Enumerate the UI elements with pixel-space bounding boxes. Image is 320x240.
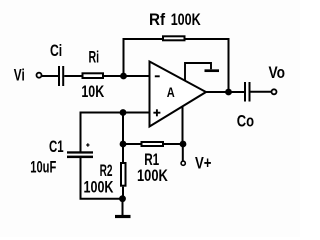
- svg-text:Ci: Ci: [50, 42, 62, 60]
- op-amp U1: [150, 62, 207, 127]
- node ground junction: [119, 195, 126, 202]
- wire offset/case pin: [185, 63, 211, 81]
- wire Ci to Ri: [64, 75, 82, 77]
- resistor Ri: [83, 73, 104, 78]
- svg-text:Ri: Ri: [89, 48, 100, 66]
- node output junction: [225, 89, 232, 96]
- wire Vi to Ci: [42, 75, 58, 77]
- ground case bar: [205, 69, 220, 72]
- capacitor Co: [245, 82, 250, 102]
- wire to V+ terminal: [182, 144, 184, 161]
- node Vo output terminal: [272, 89, 277, 94]
- node V+ junction: [180, 141, 187, 148]
- node non-inverting junction: [120, 109, 127, 116]
- wire R1 node to R2: [122, 144, 124, 163]
- svg-text:Vi: Vi: [14, 67, 25, 85]
- wire Co to Vo: [251, 91, 272, 93]
- wire ground stub: [122, 199, 124, 216]
- pin minus: [155, 75, 160, 77]
- svg-text:100K: 100K: [137, 167, 168, 185]
- svg-text:C1: C1: [49, 138, 64, 156]
- resistor Rf: [163, 36, 185, 40]
- wire R1: [123, 143, 183, 145]
- polarity plus mark: [86, 143, 89, 146]
- resistor R2: [121, 163, 126, 186]
- svg-text:Vo: Vo: [269, 64, 286, 82]
- resistor R1: [142, 142, 164, 146]
- svg-text:10uF: 10uF: [30, 159, 56, 177]
- svg-text:R2: R2: [100, 162, 113, 180]
- wire output: [205, 91, 244, 93]
- wire junction down to R1 node: [122, 113, 124, 145]
- pin plus: [153, 109, 160, 116]
- capacitor C1 electrolytic: [67, 151, 93, 158]
- svg-text:100K: 100K: [84, 179, 114, 197]
- wire C1 to ground node: [81, 158, 123, 199]
- wire R2 to ground node: [122, 187, 124, 199]
- capacitor Ci: [59, 66, 63, 86]
- svg-text:100K: 100K: [171, 11, 201, 29]
- wire C1 to non-inverting input: [81, 113, 150, 152]
- node R1 R2 junction: [120, 141, 127, 148]
- node inverting input junction: [120, 73, 127, 80]
- svg-text:10K: 10K: [81, 83, 104, 101]
- wire Ri to inverting input: [104, 75, 150, 77]
- svg-text:V+: V+: [195, 154, 212, 172]
- wire feedback loop: [124, 39, 229, 92]
- node V+ terminal: [181, 161, 185, 165]
- wire op-amp power pin: [182, 107, 184, 145]
- ground: [115, 215, 131, 218]
- svg-text:Rf: Rf: [149, 11, 166, 29]
- node Vi input terminal: [37, 73, 42, 78]
- svg-text:A: A: [167, 84, 175, 100]
- svg-text:Co: Co: [237, 113, 254, 131]
